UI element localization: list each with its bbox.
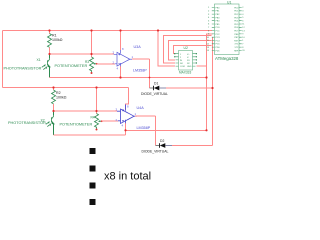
wire emitter rail block2 high part [126,129,207,131]
svg-text:NO: NO [180,63,183,65]
repeat marker square 4 [90,199,96,205]
svg-text:13: 13 [242,30,245,32]
svg-text:REF: REF [234,50,239,52]
phototransistor X2 [46,115,54,129]
svg-text:1: 1 [132,55,134,59]
wire U2 net L1 from rail [158,31,175,67]
wire D1 anode lead [150,87,154,89]
svg-text:PD4: PD4 [234,21,239,23]
U1 right pin labels inside [234,7,239,52]
svg-text:MAX333: MAX333 [179,71,191,75]
svg-text:3: 3 [113,51,115,55]
node pot R3 bottom terminal [91,72,93,74]
wire D2 anode lead [156,145,160,147]
wire bottom rail block1 [3,87,129,89]
svg-text:PD1: PD1 [216,50,221,52]
svg-text:100kΩ: 100kΩ [52,38,63,42]
op-amp U3A [114,50,132,66]
svg-text:8: 8 [127,105,129,109]
svg-text:D1: D1 [154,82,158,86]
repeat marker square 2 [90,166,96,172]
svg-text:20: 20 [242,50,245,52]
svg-text:POTENTIOMETER: POTENTIOMETER [55,64,88,68]
resistor R1 [48,34,52,48]
phototransistor X1 [42,58,50,72]
wire noninverting row block2 [54,110,118,112]
wire opamp U4A output row [135,115,155,117]
wire opamp U3A pin4 power [120,66,122,78]
svg-text:N1: N1 [187,60,190,62]
wire opamp U4A pin8 stub [125,105,127,108]
svg-text:1: 1 [135,112,137,116]
svg-text:PB1: PB1 [216,11,221,13]
svg-text:GND: GND [187,66,192,68]
svg-text:14: 14 [207,50,210,52]
svg-text:U2: U2 [184,46,188,50]
svg-text:PB2: PB2 [216,14,221,16]
IC U1 ATMega328 box [215,4,240,55]
svg-text:PD0: PD0 [234,7,239,9]
svg-text:PHOTOTRANSISTOR: PHOTOTRANSISTOR [8,121,46,125]
svg-text:D2: D2 [160,139,164,143]
wire top rail VCC [3,30,213,32]
wire left border [2,31,4,88]
svg-text:V+: V+ [187,54,190,56]
wire D1 output to vertical B [166,87,213,89]
wire potentiometer R4 top feed [96,88,98,114]
svg-text:ATMega328: ATMega328 [215,56,239,61]
wire vertical B [212,37,214,145]
svg-text:U1: U1 [227,0,231,4]
wire phototransistor X1 collector lead [49,54,51,58]
wire opamp U3A pin8 power [120,31,122,51]
svg-text:LM358P: LM358P [133,68,147,72]
svg-text:3: 3 [242,11,244,13]
wire resistor R1 top lead [49,31,51,34]
svg-text:PC3: PC3 [216,37,221,39]
svg-text:2: 2 [180,57,182,59]
svg-text:R4: R4 [91,116,95,120]
svg-text:PB7: PB7 [234,37,239,39]
svg-text:x8 in total: x8 in total [104,171,151,183]
junction dots red [48,29,213,131]
U1 pin numbers [207,7,211,52]
node pot R4 wiper terminal [101,120,103,122]
svg-text:7: 7 [208,27,210,29]
U2 pin labels inside [180,54,192,68]
repeat marker square 3 [90,183,96,189]
svg-text:1: 1 [242,40,244,42]
svg-text:PB4: PB4 [216,21,221,23]
wire D1 cathode lead [160,87,167,89]
svg-text:U4A: U4A [137,106,145,110]
svg-text:POTENTIOMETER: POTENTIOMETER [60,123,93,127]
svg-text:7: 7 [242,44,244,46]
potentiometer R4 [95,114,102,129]
svg-text:3: 3 [208,14,210,16]
node pot R3 wiper terminal [96,63,98,65]
wire resistor R2 top lead [53,88,55,91]
U1 pin labels inside [216,7,221,52]
wire U2 net L2 [164,36,212,64]
svg-text:DIODE_VIRTUAL: DIODE_VIRTUAL [142,149,169,153]
svg-text:PB0: PB0 [216,7,221,9]
svg-text:PC0: PC0 [216,27,221,29]
potentiometer R3 [90,57,97,72]
svg-text:PD5: PD5 [234,24,239,26]
U1 right pin numbers [242,7,245,52]
svg-text:4: 4 [117,67,119,71]
svg-text:PD0: PD0 [216,47,221,49]
wire output drop to D1 [149,59,151,88]
svg-text:PD7: PD7 [234,31,239,33]
svg-text:IN: IN [180,60,183,62]
wire inverting row block2 [102,120,118,122]
svg-text:R1: R1 [52,34,57,38]
wire potentiometer R3 top feed [91,31,93,58]
svg-text:PC1: PC1 [216,31,221,33]
U2 unconnected pin dots [174,53,197,64]
svg-text:PD3: PD3 [234,17,239,19]
svg-text:4: 4 [242,14,244,16]
wire phototransistor X1 emitter to rail [49,67,51,78]
svg-text:V-: V- [187,57,189,59]
svg-text:U3A: U3A [134,45,142,49]
svg-text:PHOTOTRANSISTOR: PHOTOTRANSISTOR [4,66,42,70]
wire resistor R1 bottom lead [49,48,51,55]
diode D1 [154,86,160,91]
svg-text:PC5: PC5 [216,44,221,46]
U1 pin stubs [212,8,242,51]
svg-text:PC2: PC2 [216,34,221,36]
svg-text:RST: RST [234,40,239,42]
svg-text:XT1: XT1 [234,44,239,46]
resistor R2 [52,90,56,104]
IC U2 box [176,51,196,71]
wire output drop to D2 [155,116,157,145]
wire inverting row block1 [97,63,115,65]
wire U2 net L4 [174,46,212,54]
svg-text:PB3: PB3 [216,17,221,19]
wire resistor R2 bottom lead [53,104,55,111]
svg-text:R2: R2 [56,91,61,95]
svg-text:4: 4 [208,17,210,19]
svg-text:PB5: PB5 [216,24,221,26]
wire emitter rail block2 jog [125,130,127,135]
svg-text:12: 12 [242,27,245,29]
svg-text:5: 5 [242,17,244,19]
wire opamp U3A output row [132,58,150,60]
svg-text:1: 1 [180,54,182,56]
svg-text:PD1: PD1 [234,11,239,13]
svg-text:COM: COM [180,66,185,68]
wire phototransistor X2 emitter to rail2 [53,124,55,135]
svg-text:6: 6 [208,24,210,26]
svg-text:8: 8 [242,47,244,49]
wire noninverting row block1 [50,53,115,55]
svg-text:100kΩ: 100kΩ [56,96,67,100]
node pot R4 bottom terminal [96,129,98,131]
op-amp U4A [117,107,137,124]
svg-text:6: 6 [242,20,244,22]
svg-text:8: 8 [122,47,124,51]
wire vertical A top jog [207,34,213,130]
svg-text:4: 4 [122,124,124,128]
wire U2 right pin to A [197,65,207,67]
svg-text:PC4: PC4 [216,40,221,42]
svg-text:2: 2 [242,7,244,9]
wire phototransistor X2 collector lead [53,111,55,115]
wire U2 net L3 [169,41,212,60]
svg-text:X1: X1 [37,58,41,62]
svg-text:9: 9 [242,34,244,36]
svg-text:1: 1 [208,7,210,9]
svg-text:5: 5 [208,20,210,22]
svg-text:LM358P: LM358P [137,126,151,130]
svg-text:10: 10 [207,37,210,39]
svg-text:13: 13 [207,47,210,49]
svg-text:10: 10 [242,37,245,39]
svg-text:PD2: PD2 [234,14,239,16]
wire emitter rail block1 [50,77,207,79]
wire opamp U4A pin4 power [125,123,127,130]
wire D2 cathode lead [166,145,173,147]
svg-text:2: 2 [208,11,210,13]
repeat marker square 1 [90,148,96,154]
svg-text:PB6: PB6 [234,34,239,36]
svg-text:DIODE_VIRTUAL: DIODE_VIRTUAL [141,92,168,96]
wire bottom rail drop to opamp2 pin8 [126,88,129,110]
svg-text:11: 11 [242,24,245,26]
svg-text:XT2: XT2 [234,47,239,49]
wire emitter rail block2 [54,134,126,136]
diode D2 [160,143,166,148]
svg-text:PD6: PD6 [234,27,239,29]
svg-text:N2: N2 [187,63,190,65]
wire D2 output to vertical B corner [172,145,213,147]
